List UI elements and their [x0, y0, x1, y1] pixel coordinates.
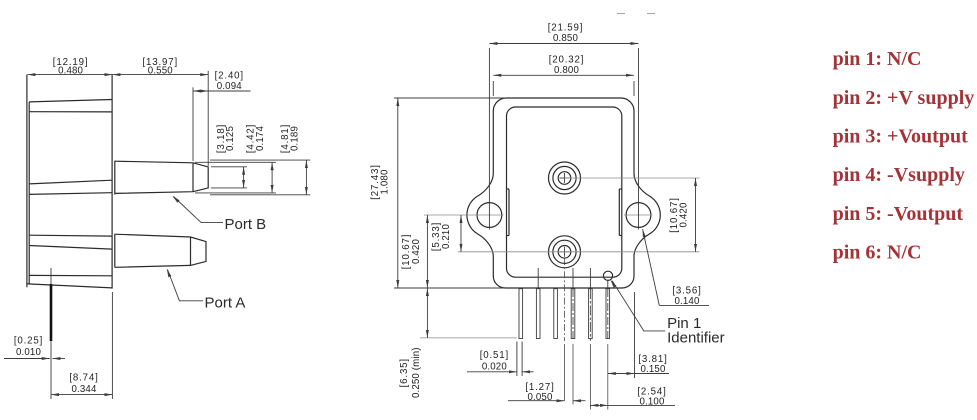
- side view port B: [115, 161, 208, 195]
- pin 2 (front view): [536, 289, 540, 339]
- svg-text:[0.51]: [0.51]: [480, 350, 509, 361]
- svg-text:Port B: Port B: [225, 216, 267, 233]
- pin 4 centerline: [572, 289, 574, 341]
- pin 6 centerline: [607, 289, 609, 341]
- pin 6 (front view): [606, 289, 610, 339]
- pin 5 centerline: [589, 289, 591, 341]
- svg-text:[20.32]: [20.32]: [549, 54, 585, 65]
- svg-text:pin 5: -Voutput: pin 5: -Voutput: [833, 203, 964, 225]
- dimension [4.81] 0.189: [210, 124, 310, 195]
- svg-text:0.850: 0.850: [553, 33, 578, 44]
- svg-text:pin 3: +Voutput: pin 3: +Voutput: [833, 126, 968, 148]
- side view bottom pin lead: [50, 268, 52, 372]
- left mounting hole: [424, 48, 504, 230]
- dimension [2.40] 0.094: [193, 70, 251, 161]
- package vertical centerline: [564, 258, 566, 341]
- svg-text:Identifier: Identifier: [667, 329, 725, 346]
- dimension left [10.67] 0.420: [401, 215, 427, 288]
- svg-text:0.125: 0.125: [225, 126, 236, 151]
- internal pin hidden lines: [538, 268, 608, 288]
- svg-text:0.094: 0.094: [217, 81, 242, 92]
- dimension [13.97] 0.550: [112, 57, 208, 166]
- front view inner cover outline: [507, 107, 622, 277]
- label Pin 1 Identifier with leader: [611, 280, 725, 347]
- stray mark right: [647, 13, 655, 15]
- label Port A with leader: [167, 269, 246, 312]
- svg-text:[0.25]: [0.25]: [14, 336, 43, 347]
- dimension right [10.67] 0.420: [547, 178, 700, 252]
- dimension [3.81] 0.150: [608, 292, 669, 378]
- side view body: [27, 75, 112, 289]
- svg-text:pin 2: +V supply: pin 2: +V supply: [833, 87, 975, 109]
- dimension [0.51] 0.020: [467, 342, 534, 377]
- svg-text:[8.74]: [8.74]: [69, 373, 98, 384]
- dimension [4.42] 0.174: [195, 124, 276, 193]
- svg-text:0.174: 0.174: [255, 126, 266, 151]
- side view port A: [115, 234, 206, 268]
- top port (front view): [549, 162, 581, 194]
- dimension [0.25] 0.010: [4, 336, 65, 359]
- svg-text:[6.35]: [6.35]: [399, 358, 410, 387]
- svg-text:1.080: 1.080: [380, 169, 391, 194]
- svg-text:Port A: Port A: [205, 295, 246, 312]
- pin 4 (front view): [571, 289, 575, 339]
- dimension [1.27] 0.050: [508, 382, 586, 403]
- dimension [3.56] 0.140 hole diameter leader: [643, 229, 709, 307]
- dimension [3.18] 0.125: [211, 124, 247, 188]
- svg-text:0.210: 0.210: [441, 224, 452, 249]
- svg-text:[3.56]: [3.56]: [672, 286, 701, 297]
- pin 1 (front view): [519, 289, 523, 339]
- bottom port (front view): [549, 236, 581, 268]
- svg-text:0.050: 0.050: [528, 392, 553, 403]
- svg-text:0.020: 0.020: [482, 361, 507, 372]
- svg-text:0.420: 0.420: [411, 239, 422, 264]
- svg-text:pin 4: -Vsupply: pin 4: -Vsupply: [833, 164, 965, 186]
- dimension [20.32] 0.800: [493, 54, 634, 96]
- dimension [21.59] 0.850: [489, 23, 638, 44]
- dimension [6.35] 0.250 (min): [399, 288, 517, 398]
- dimension [5.33] 0.210: [431, 215, 546, 252]
- right mounting hole: [624, 48, 653, 230]
- svg-text:0.100: 0.100: [640, 397, 665, 408]
- dimension [8.74] 0.344: [51, 292, 112, 399]
- dimension [27.43] 1.080: [370, 98, 506, 288]
- stray mark left: [617, 13, 625, 15]
- dimension [2.54] 0.100: [590, 387, 675, 408]
- svg-text:0.800: 0.800: [554, 65, 579, 76]
- svg-text:0.010: 0.010: [16, 347, 41, 358]
- front view outer body with mounting ears: [467, 98, 660, 288]
- pin 5 (front view): [589, 289, 593, 339]
- svg-text:0.189: 0.189: [290, 126, 301, 151]
- svg-text:pin 6: N/C: pin 6: N/C: [833, 242, 922, 264]
- svg-text:0.250 (min): 0.250 (min): [411, 347, 422, 398]
- svg-text:0.344: 0.344: [72, 384, 97, 395]
- pin 3 (front view): [554, 289, 558, 339]
- svg-text:[2.40]: [2.40]: [215, 70, 244, 81]
- dimension [12.19] 0.480: [27, 57, 112, 77]
- label Port B with leader: [172, 196, 266, 233]
- svg-text:[21.59]: [21.59]: [548, 23, 584, 34]
- svg-text:0.420: 0.420: [679, 202, 690, 227]
- svg-text:pin 1: N/C: pin 1: N/C: [833, 48, 922, 70]
- pin 1 identifier circle: [603, 271, 612, 280]
